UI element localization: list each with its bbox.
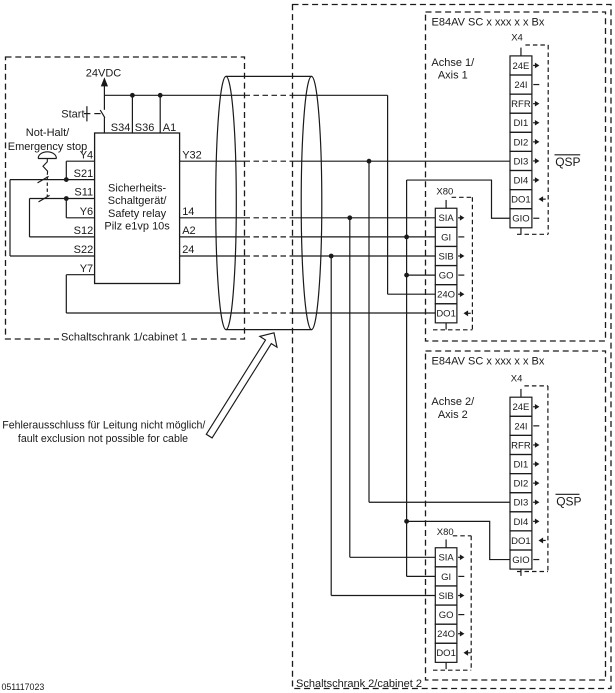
junction bus S36 <box>130 93 135 98</box>
terminal X4.24E drive 1 <box>510 56 539 75</box>
terminal X80.24O drive 1 <box>435 285 464 304</box>
svg-text:24E: 24E <box>512 402 529 413</box>
svg-text:Sicherheits-: Sicherheits- <box>108 183 166 195</box>
terminal strip X80 drive 1 <box>435 208 457 323</box>
contact blade e-stop channel 1 <box>38 176 49 183</box>
svg-text:S12: S12 <box>74 225 94 237</box>
wire 14 to SIA <box>180 217 245 219</box>
tick above strip X4 drive 2 <box>520 389 522 397</box>
svg-text:A2: A2 <box>182 225 195 237</box>
cable left ellipse <box>216 76 237 329</box>
svg-text:X80: X80 <box>437 527 454 538</box>
svg-text:051117023: 051117023 <box>2 682 45 692</box>
svg-text:E84AV SC x xxx x x Bx: E84AV SC x xxx x x Bx <box>432 356 545 368</box>
svg-text:DI4: DI4 <box>514 517 529 528</box>
svg-text:X80: X80 <box>436 186 453 197</box>
wire Y4 to S21 link <box>65 161 67 179</box>
terminal X4.DI2 drive 2 <box>510 474 539 493</box>
cable bottom outline <box>226 329 312 331</box>
terminal X80.DO1 drive 2 <box>435 643 470 662</box>
svg-text:RFR: RFR <box>511 99 531 110</box>
switch Start actuator <box>84 106 90 121</box>
terminal X80.GI drive 1 <box>435 227 464 246</box>
svg-text:DI3: DI3 <box>514 498 529 509</box>
wire 24VDC stem <box>103 86 105 110</box>
wire A2 hidden in cable <box>245 236 293 238</box>
terminal X4.DI3 drive 1 <box>510 151 539 170</box>
junction bus A1 <box>158 93 163 98</box>
svg-text:Schaltgerät/: Schaltgerät/ <box>108 195 168 207</box>
svg-text:Achse 1/: Achse 1/ <box>431 57 475 69</box>
terminal X80.GI drive 2 <box>435 567 464 586</box>
svg-text:DO1: DO1 <box>511 536 531 547</box>
connector X4 drive 1 dashed outline <box>517 45 548 234</box>
svg-text:GI: GI <box>441 572 451 583</box>
svg-text:Axis 2: Axis 2 <box>438 409 468 421</box>
wire Y6 <box>66 217 94 219</box>
svg-text:DI1: DI1 <box>514 118 529 129</box>
svg-text:Emergency stop: Emergency stop <box>8 141 87 153</box>
net label QSP drive 2 <box>556 494 582 508</box>
terminal X4.DO1 drive 1 <box>510 190 546 209</box>
wire Y7 cabinet 2 to DO1 drive 1 <box>293 312 436 314</box>
wire Y32 hidden in cable <box>245 160 293 162</box>
terminal X80.DO1 drive 1 <box>435 304 470 323</box>
cabinet 1 enclosure Schaltschrank 1 <box>6 57 245 339</box>
annotation arrow fault exclusion <box>206 333 277 438</box>
terminal X4.RFR drive 1 <box>510 94 539 113</box>
svg-text:24: 24 <box>182 244 194 256</box>
cable top outline <box>226 75 312 77</box>
wire S11 loop down <box>29 199 31 237</box>
svg-text:E84AV SC x xxx x x Bx: E84AV SC x xxx x x Bx <box>432 17 545 29</box>
junction SIA branch <box>347 215 352 220</box>
wire SIB drive 2 feed <box>331 595 435 597</box>
connector X4 drive 2 dashed outline <box>517 386 548 572</box>
drive 2 enclosure E84AV SC <box>426 351 606 680</box>
switch Start contact blade <box>100 110 105 118</box>
junction SIB branch <box>329 254 334 259</box>
svg-text:QSP: QSP <box>555 155 580 169</box>
svg-text:24O: 24O <box>437 629 455 640</box>
svg-text:SIA: SIA <box>438 553 454 564</box>
wire S22 <box>10 255 95 257</box>
terminal X4.DI1 drive 1 <box>510 113 539 132</box>
wire 14 hidden in cable <box>245 217 293 219</box>
label cabinet 1 <box>59 330 189 344</box>
terminal X80.GO drive 1 <box>435 266 464 285</box>
wire S36 from bus <box>131 95 133 133</box>
label Achse 2 / Axis 2 <box>431 396 475 421</box>
terminal X4.DO1 drive 2 <box>510 531 546 550</box>
terminal X4.DI2 drive 1 <box>510 132 539 151</box>
svg-text:RFR: RFR <box>511 440 531 451</box>
wire GI drive 2 feed <box>407 575 436 577</box>
wire S11 <box>30 198 95 200</box>
svg-text:GIO: GIO <box>512 214 529 225</box>
wire SIA drive 2 feed <box>350 556 436 558</box>
svg-text:S22: S22 <box>74 244 94 256</box>
terminal X80.GO drive 2 <box>435 605 464 624</box>
safety relay Pilz e1vp 10s <box>95 133 180 284</box>
label cabinet 2 <box>295 676 422 690</box>
wire 24O drive 1 feed <box>388 293 436 295</box>
wire SIA chain down <box>349 218 351 558</box>
wire DI3 chain down <box>368 161 370 502</box>
terminal X4.GIO drive 2 <box>510 550 539 569</box>
junction GI branch <box>404 235 409 240</box>
wire 24VDC bus <box>104 94 244 96</box>
svg-text:Y6: Y6 <box>80 206 93 218</box>
wire Y4 <box>66 160 94 162</box>
terminal X4.24I drive 1 <box>510 75 539 94</box>
svg-text:Start: Start <box>61 109 84 121</box>
wire 24 hidden in cable <box>245 255 293 257</box>
terminal X4.24E drive 2 <box>510 397 539 416</box>
drive 1 enclosure E84AV SC <box>426 12 606 341</box>
terminal X4.DI4 drive 2 <box>510 512 539 531</box>
svg-text:SIA: SIA <box>438 213 454 224</box>
wire A2 cabinet 2 to GI drive 1 <box>293 236 436 238</box>
wire 24 to SIB <box>180 255 245 257</box>
svg-text:fault exclusion not possible f: fault exclusion not possible for cable <box>18 433 188 445</box>
switch Start contact lead <box>94 113 100 115</box>
emergency stop mushroom head <box>38 152 57 159</box>
terminal strip X4 drive 2 <box>510 397 532 569</box>
emergency stop label <box>8 127 87 153</box>
svg-text:14: 14 <box>182 206 194 218</box>
svg-text:DI1: DI1 <box>514 459 529 470</box>
wire 14 cabinet 2 to SIA drive 1 <box>293 217 436 219</box>
wire 24 cabinet 2 to SIB drive 1 <box>293 255 436 257</box>
svg-text:Schaltschrank 1/cabinet 1: Schaltschrank 1/cabinet 1 <box>61 332 187 344</box>
junction S11-Y6 <box>64 196 69 201</box>
svg-text:SIB: SIB <box>438 591 453 602</box>
svg-text:X4: X4 <box>511 374 523 385</box>
terminal X80.24O drive 2 <box>435 624 464 643</box>
terminal strip X4 drive 1 <box>510 56 532 228</box>
terminal X4.GIO drive 1 <box>510 209 539 228</box>
wire GIO drive 2 link <box>407 521 510 559</box>
wire DI3 drive 2 feed <box>369 501 510 503</box>
svg-text:GI: GI <box>441 232 451 243</box>
supply arrow 24VDC <box>101 77 108 86</box>
annotation text fault exclusion <box>2 420 205 446</box>
wire 24V drop to 24O drive 1 <box>387 95 389 294</box>
svg-text:S11: S11 <box>74 187 93 199</box>
svg-text:Fehlerausschluss für Leitung n: Fehlerausschluss für Leitung nicht mögli… <box>2 420 205 432</box>
svg-text:GIO: GIO <box>512 555 529 566</box>
wire S21 loop down <box>9 180 11 256</box>
terminal X80.SIB drive 1 <box>435 246 464 265</box>
terminal X4.DI3 drive 2 <box>510 493 539 512</box>
svg-text:GO: GO <box>439 610 454 621</box>
terminal X4.DI1 drive 2 <box>510 455 539 474</box>
junction GIO drive 2 branch <box>404 519 409 524</box>
svg-text:Y32: Y32 <box>182 149 202 161</box>
net label QSP drive 1 <box>555 155 581 169</box>
svg-text:Safety relay: Safety relay <box>108 208 167 220</box>
terminal strip X80 drive 2 <box>435 548 457 663</box>
svg-text:SIB: SIB <box>438 251 453 262</box>
wire S34 to relay <box>103 118 105 134</box>
wire Y32 cabinet 2 to DI3 drive 1 <box>293 160 511 162</box>
wire GIO drive 1 link <box>407 180 510 218</box>
svg-text:Pilz e1vp 10s: Pilz e1vp 10s <box>104 220 170 232</box>
wire Y7 run <box>66 312 244 314</box>
label Achse 1 / Axis 1 <box>431 57 475 82</box>
svg-text:24E: 24E <box>512 61 529 72</box>
svg-text:DI3: DI3 <box>514 156 529 167</box>
tick above strip X4 drive 1 <box>520 48 522 56</box>
junction GO drive 1 <box>404 273 409 278</box>
svg-text:DI4: DI4 <box>514 175 529 186</box>
wire GI chain <box>406 180 408 576</box>
svg-text:24O: 24O <box>437 290 455 301</box>
contact blade e-stop channel 2 <box>39 195 50 202</box>
wire Y7 <box>66 274 94 276</box>
connector X80 drive 2 dashed outline <box>433 536 471 670</box>
junction Y4-S21 <box>64 177 69 182</box>
tick below strip X4 drive 2 <box>520 569 522 576</box>
terminal X80.SIA drive 1 <box>435 208 464 227</box>
connector X80 drive 1 dashed outline <box>433 197 472 329</box>
svg-text:DO1: DO1 <box>436 309 456 320</box>
tick below strip X80 drive 2 <box>445 662 447 669</box>
svg-text:X4: X4 <box>511 33 523 44</box>
svg-text:GO: GO <box>439 271 454 282</box>
svg-text:DI2: DI2 <box>514 137 529 148</box>
junction DI3 branch <box>367 159 372 164</box>
svg-text:24VDC: 24VDC <box>86 67 122 79</box>
terminal X4.DI4 drive 1 <box>510 171 539 190</box>
wire 24VDC bus hidden in cable <box>245 94 293 96</box>
svg-text:DI2: DI2 <box>514 479 529 490</box>
wire S11 to Y6 link <box>65 199 67 218</box>
svg-text:Not-Halt/: Not-Halt/ <box>26 127 70 139</box>
wire A2 to GI <box>180 236 245 238</box>
svg-text:DO1: DO1 <box>436 648 456 659</box>
terminal X80.SIB drive 2 <box>435 586 464 605</box>
tick below strip X4 drive 1 <box>520 228 522 235</box>
wire S21 <box>10 179 95 181</box>
cable right ellipse <box>301 76 322 329</box>
svg-text:Achse 2/: Achse 2/ <box>431 396 475 408</box>
wire Y7 drop <box>65 275 67 313</box>
terminal X4.24I drive 2 <box>510 416 539 435</box>
wire SIB chain down <box>330 256 332 596</box>
svg-text:24I: 24I <box>514 80 527 91</box>
svg-text:S21: S21 <box>74 168 94 180</box>
cabinet 2 enclosure Schaltschrank 2 <box>293 5 612 689</box>
wire GO drive 1 feed <box>407 274 436 276</box>
wire S12 <box>30 236 95 238</box>
wire Y7 hidden in cable <box>245 312 293 314</box>
tick below strip X80 drive 1 <box>445 323 447 330</box>
tick above strip X80 drive 1 <box>445 200 447 208</box>
svg-text:QSP: QSP <box>556 494 581 508</box>
emergency stop plunger zigzag <box>43 159 48 175</box>
terminal X80.SIA drive 2 <box>435 548 464 567</box>
svg-text:24I: 24I <box>514 421 527 432</box>
svg-text:DO1: DO1 <box>511 195 531 206</box>
svg-text:Axis 1: Axis 1 <box>438 69 468 81</box>
terminal X4.RFR drive 2 <box>510 435 539 454</box>
svg-text:Schaltschrank 2/cabinet 2: Schaltschrank 2/cabinet 2 <box>296 678 422 690</box>
emergency stop linkage dashed <box>46 177 48 197</box>
tick above strip X80 drive 2 <box>445 539 447 547</box>
wire A1 from bus <box>159 95 161 133</box>
wire 24VDC bus cabinet 2 <box>293 94 388 96</box>
wire Y32 to DI3 <box>180 160 245 162</box>
svg-text:Y7: Y7 <box>80 263 93 275</box>
